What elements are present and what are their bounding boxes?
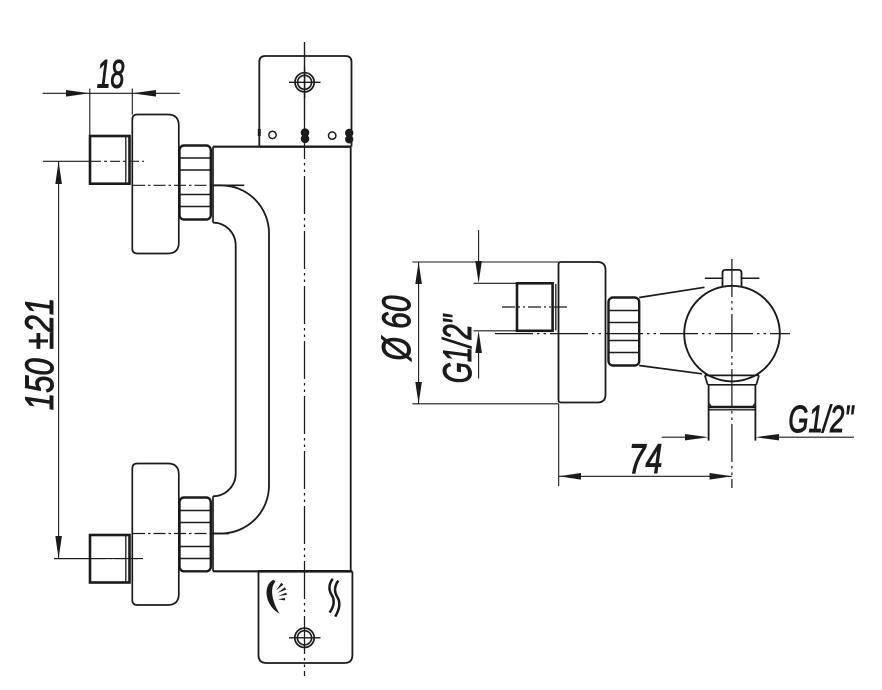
mixer body boss top line xyxy=(213,146,259,148)
dim G1/2 upper line + down arrow xyxy=(478,230,480,265)
dim 18 left arrow xyxy=(66,90,90,97)
bottom screw inner circle xyxy=(297,631,311,645)
svg-text:G1/2": G1/2" xyxy=(788,398,854,440)
spray icon on bottom plate xyxy=(266,580,279,614)
bottom escutcheon xyxy=(132,464,179,606)
main horizontal axis xyxy=(495,333,790,335)
bottom screw cross lines xyxy=(289,637,321,639)
side bar profile xyxy=(559,262,606,403)
dim 18 right arrow xyxy=(132,90,156,97)
top screw cross lines xyxy=(289,67,321,99)
dim 150 bottom arrow xyxy=(55,536,62,559)
top union hex nut xyxy=(90,136,130,184)
top union hex nut inner edge xyxy=(125,137,127,183)
knob button xyxy=(723,270,742,287)
svg-text:Ø 60: Ø 60 xyxy=(375,295,419,361)
wave icon on bottom plate xyxy=(329,579,333,613)
bottom mounting plate xyxy=(259,572,353,664)
knob button side ticks xyxy=(705,277,760,279)
side ribbed nut xyxy=(609,298,640,366)
top plate bottom thick edge xyxy=(259,145,351,147)
bottom plate top thick edge xyxy=(259,570,353,573)
pipe inner contour xyxy=(213,223,236,497)
side ribbed nut knurl lines xyxy=(609,311,639,353)
top mounting plate xyxy=(259,56,351,147)
svg-text:74: 74 xyxy=(629,435,663,482)
outlet pipe chamfer diagonals xyxy=(709,403,756,406)
mixer body boss edge bottom xyxy=(212,496,214,571)
plate hole tick left edge xyxy=(258,129,261,136)
plate hole small circle right xyxy=(329,132,336,139)
dim 74 dimension line xyxy=(559,475,732,477)
bottom ribbed nut xyxy=(180,498,211,572)
dim Ø60 arrows xyxy=(415,262,422,284)
dim Ø60 dimension line xyxy=(418,262,420,404)
top ribbed nut xyxy=(180,146,211,220)
top ribbed nut knurl lines xyxy=(180,158,211,207)
dim 150 bottom extension line xyxy=(54,558,138,560)
plate hole double dot right edge xyxy=(345,129,353,144)
dim 150 top arrow xyxy=(55,161,62,184)
dim 74 arrows xyxy=(559,473,581,480)
bottom inlet wall centerline xyxy=(54,558,96,560)
bottom union hex nut inner edge xyxy=(125,536,127,582)
dim 18 extension lines xyxy=(90,89,133,137)
bottom inlet axis centerline xyxy=(133,533,212,535)
body taper bottom line xyxy=(639,366,702,374)
top escutcheon xyxy=(132,115,179,254)
top axis solid segment xyxy=(210,184,244,186)
bottom axis solid segment xyxy=(210,533,229,535)
wall union gap line xyxy=(555,284,557,331)
bottom ribbed nut knurl lines xyxy=(180,511,211,559)
knob vertical centerline xyxy=(731,259,733,488)
dim G1/2 extension lines xyxy=(474,283,518,331)
mixer bar right edge xyxy=(350,147,352,571)
dim 18 dimension line xyxy=(43,92,180,94)
top inlet wall centerline xyxy=(43,160,91,162)
svg-text:G1/2": G1/2" xyxy=(436,313,480,383)
body taper top line xyxy=(639,287,704,297)
top inlet axis centerline xyxy=(133,184,212,186)
plate hole small circle left xyxy=(269,131,276,138)
top screw inner circle xyxy=(298,75,312,89)
svg-text:18: 18 xyxy=(97,53,125,97)
dim Ø60 extension lines xyxy=(412,262,559,404)
outlet pipe sides xyxy=(709,385,756,441)
mixer body boss edge top xyxy=(212,147,214,223)
wall union square xyxy=(517,283,553,331)
dim 74 extension line left xyxy=(558,404,560,486)
thermostat knob circle xyxy=(684,286,780,382)
plate hole double dot center xyxy=(301,128,310,143)
dim G1/2 outlet dimension lines + arrows xyxy=(662,436,685,438)
outlet collar xyxy=(705,375,759,384)
wall union centerline xyxy=(502,306,567,308)
vertical centerline of mixer bar xyxy=(304,42,306,121)
svg-text:150 ±21: 150 ±21 xyxy=(17,298,62,411)
bottom screw outer circle xyxy=(295,628,314,647)
dim G1/2 lower line + up arrow xyxy=(478,350,480,379)
outlet pipe thread relief xyxy=(709,406,756,409)
dim 150 dimension line xyxy=(58,161,60,558)
top screw outer circle xyxy=(295,73,314,92)
bottom union hex nut xyxy=(90,535,130,583)
pipe outer contour xyxy=(210,185,269,533)
